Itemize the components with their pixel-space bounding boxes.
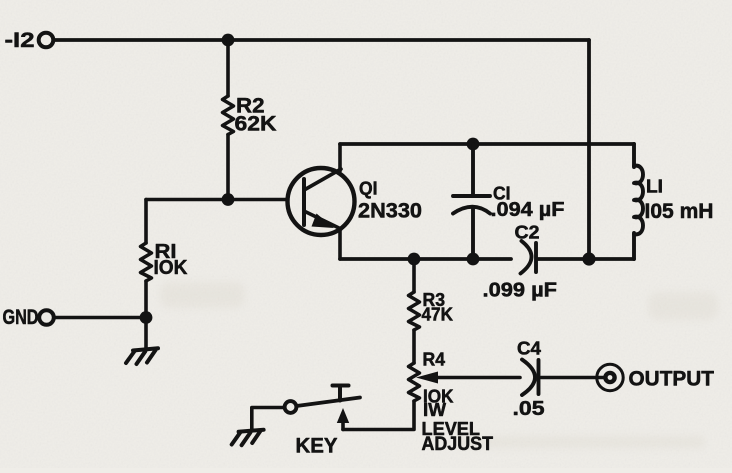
wire GND lead [54,316,146,320]
switch KEY contact post [338,386,342,401]
wire top supply rail [54,38,589,42]
terminal GND [39,310,54,325]
node R3 top junction [408,253,421,266]
wire base lead [146,198,287,202]
wire R3-R4 link [412,330,416,363]
node C1 bottom junction [467,253,480,266]
svg-text:2N330: 2N330 [358,199,422,223]
transistor Q1 [288,168,355,235]
svg-text:GND: GND [3,306,39,329]
resistor R3 [409,292,420,330]
svg-text:OUTPUT: OUTPUT [629,368,715,391]
svg-text:.099 µF: .099 µF [483,279,558,302]
wire tank top rail [340,142,634,146]
switch KEY arm [297,398,361,407]
wire R1 bottom lead [144,281,148,348]
svg-text:ADJUST: ADJUST [422,434,494,455]
svg-text:47K: 47K [422,304,454,325]
node base junction [222,193,235,206]
svg-text:IW: IW [423,399,447,420]
ground (key) [232,430,264,446]
terminal OUTPUT [597,364,623,390]
potentiometer R4 [409,363,420,401]
inductor L1 [634,144,643,259]
wire emitter lead [338,230,342,259]
svg-text:KEY: KEY [296,435,338,458]
wire R2 top lead [226,40,230,96]
ground (left) [126,348,158,364]
wire R3 top lead [412,259,416,292]
switch KEY pivot [285,401,297,413]
wire R4 bottom lead [343,401,414,430]
terminal -12 [39,33,54,48]
resistor R1 [141,243,152,281]
svg-text:-I2: -I2 [5,28,35,52]
svg-text:I05 mH: I05 mH [645,200,714,223]
svg-text:62K: 62K [235,112,277,136]
wire tank bottom rail right [538,257,634,261]
svg-text:C2: C2 [515,222,540,243]
svg-text:LI: LI [646,177,663,197]
node supply bottom junction [582,252,595,265]
svg-text:.094 µF: .094 µF [491,198,565,221]
capacitor C4 [522,360,604,396]
svg-text:.05: .05 [513,397,545,420]
capacitor C2 [521,241,537,274]
wire key arrow lead [337,408,349,423]
wire tank bottom rail left [340,257,511,261]
wire key ground lead [252,408,284,430]
node R1/GND junction [140,311,153,324]
svg-text:QI: QI [359,179,378,199]
svg-text:IOK: IOK [154,256,188,279]
wire supply vertical drop [587,40,591,259]
svg-text:C4: C4 [517,338,542,359]
wire left vertical to R1 [144,200,148,244]
wire R2 bottom lead [226,135,230,200]
svg-text:R4: R4 [423,350,446,370]
node C1 top junction [467,138,480,151]
capacitor C1 [453,144,490,259]
wiper arrow R4 [434,376,520,380]
wire collector lead [338,144,342,171]
resistor R2 [223,96,234,135]
node supply/R2 junction [222,34,235,47]
